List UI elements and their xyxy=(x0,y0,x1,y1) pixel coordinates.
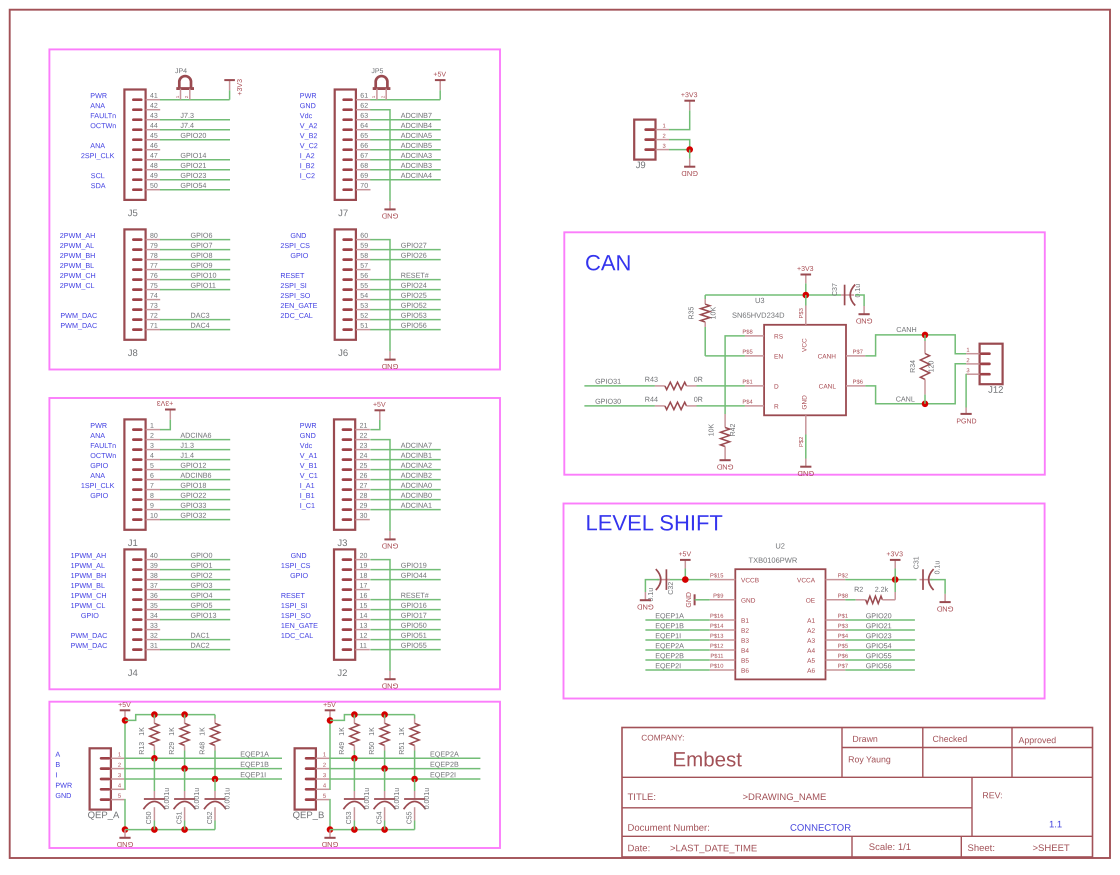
svg-text:C51: C51 xyxy=(176,811,183,824)
svg-text:37: 37 xyxy=(150,583,158,590)
svg-text:GPIO56: GPIO56 xyxy=(401,321,427,330)
svg-text:J1.4: J1.4 xyxy=(180,451,194,460)
connector J4 xyxy=(124,549,145,659)
svg-text:EQEP2I: EQEP2I xyxy=(655,661,681,670)
svg-text:J1.3: J1.3 xyxy=(180,441,194,450)
svg-text:44: 44 xyxy=(150,123,158,130)
svg-text:45: 45 xyxy=(150,133,158,140)
wire ground rail xyxy=(125,829,215,831)
J7 pin 66 xyxy=(356,149,371,151)
svg-text:EQEP2A: EQEP2A xyxy=(655,641,684,650)
wire rail to R13 xyxy=(153,715,155,719)
svg-text:J7.4: J7.4 xyxy=(180,121,194,130)
net EQEP1A xyxy=(645,619,709,621)
ground R42 xyxy=(724,452,726,460)
svg-text:P$4: P$4 xyxy=(742,400,753,406)
net ADCINA0 xyxy=(370,489,440,491)
resistor R35 xyxy=(701,304,710,322)
wire row to C54 xyxy=(384,769,386,791)
power +3V3 LS xyxy=(890,559,901,561)
svg-text:P$3: P$3 xyxy=(799,308,805,318)
svg-text:I_B1: I_B1 xyxy=(300,491,315,500)
net GPIO14 xyxy=(160,159,230,161)
svg-text:Embest: Embest xyxy=(672,748,742,771)
svg-text:R2: R2 xyxy=(854,585,863,594)
svg-text:GND: GND xyxy=(321,840,338,849)
J1 pin 5 xyxy=(146,469,161,471)
svg-text:GPIO23: GPIO23 xyxy=(180,171,206,180)
svg-text:50: 50 xyxy=(150,183,158,190)
wire C55 to ground rail xyxy=(414,821,416,830)
svg-text:15: 15 xyxy=(360,603,368,610)
svg-text:CANH: CANH xyxy=(818,353,837,360)
net GPIO13 xyxy=(160,619,230,621)
svg-text:PGND: PGND xyxy=(956,418,976,425)
svg-text:ADCINA4: ADCINA4 xyxy=(401,171,432,180)
wire rail to R49 xyxy=(353,715,355,719)
net ADCINA4 xyxy=(370,179,440,181)
svg-text:39: 39 xyxy=(150,563,158,570)
wire R51 to row xyxy=(414,746,416,751)
svg-text:4: 4 xyxy=(150,453,154,460)
U2 pin P$10 xyxy=(710,669,736,671)
net J1.3 xyxy=(160,449,230,451)
J8 pin 73 xyxy=(146,309,161,311)
svg-text:C31: C31 xyxy=(913,556,920,569)
svg-text:B4: B4 xyxy=(741,648,749,655)
svg-text:18: 18 xyxy=(360,573,368,580)
net GPIO20 xyxy=(845,619,915,621)
power +3V3 J5 xyxy=(224,79,235,81)
J4 pin 32 xyxy=(146,639,161,641)
U3 pin P$8 RS xyxy=(745,335,764,337)
net GPIO27 xyxy=(370,249,440,251)
svg-text:A4: A4 xyxy=(807,648,815,655)
svg-text:EQEP1I: EQEP1I xyxy=(240,770,266,779)
net GPIO30 xyxy=(584,405,655,407)
svg-text:P$6: P$6 xyxy=(853,380,863,386)
svg-text:GPIO33: GPIO33 xyxy=(180,501,206,510)
J12 pin 3 xyxy=(966,373,980,375)
J3 pin 27 xyxy=(355,489,370,491)
svg-text:GPIO3: GPIO3 xyxy=(190,581,212,590)
svg-text:2SPI_CS: 2SPI_CS xyxy=(280,241,310,250)
svg-text:>DRAWING_NAME: >DRAWING_NAME xyxy=(742,792,826,803)
J1 pin 10 xyxy=(146,519,161,521)
svg-text:GPIO0: GPIO0 xyxy=(190,551,212,560)
J5 pin 41 xyxy=(146,99,161,101)
svg-text:J4: J4 xyxy=(128,668,138,679)
J2 pin 19 xyxy=(355,569,370,571)
svg-text:29: 29 xyxy=(360,503,368,510)
svg-text:21: 21 xyxy=(360,423,368,430)
net J7.3 xyxy=(160,119,230,121)
connector J7 xyxy=(335,90,356,200)
svg-text:GPIO17: GPIO17 xyxy=(401,611,427,620)
svg-text:SN65HVD234D: SN65HVD234D xyxy=(732,311,785,320)
net GPIO54 xyxy=(160,189,230,191)
svg-text:GPIO52: GPIO52 xyxy=(401,301,427,310)
svg-text:+5V: +5V xyxy=(433,71,446,78)
svg-text:2.2k: 2.2k xyxy=(875,585,889,594)
J3 pin 22 xyxy=(355,439,370,441)
svg-text:38: 38 xyxy=(150,573,158,580)
svg-text:B3: B3 xyxy=(741,638,749,645)
svg-text:2SPI_SI: 2SPI_SI xyxy=(280,281,306,290)
wire C52 to ground rail xyxy=(214,821,216,830)
svg-text:1SPI_SO: 1SPI_SO xyxy=(281,611,311,620)
U3 pin P$3 VCC xyxy=(805,306,807,325)
svg-text:Drawn: Drawn xyxy=(852,734,878,744)
svg-text:2EN_GATE: 2EN_GATE xyxy=(280,301,317,310)
svg-text:VCC: VCC xyxy=(802,338,809,352)
svg-text:1K: 1K xyxy=(339,727,346,736)
svg-text:DAC1: DAC1 xyxy=(190,631,209,640)
svg-text:63: 63 xyxy=(360,113,368,120)
J4 pin 35 xyxy=(146,609,161,611)
net GPIO23 xyxy=(160,179,230,181)
wire C53 to ground rail xyxy=(353,821,355,830)
svg-text:ADCINA2: ADCINA2 xyxy=(401,461,432,470)
svg-text:ADCINB7: ADCINB7 xyxy=(401,111,432,120)
svg-text:GPIO: GPIO xyxy=(90,491,108,500)
net EQEP2I xyxy=(329,778,480,780)
title block frame xyxy=(622,728,1093,858)
J2 pin 11 xyxy=(355,649,370,651)
wire pin5 to ground rail xyxy=(123,800,126,830)
net GPIO54 xyxy=(845,649,915,651)
wire C51 to ground rail xyxy=(184,821,186,830)
svg-text:J6: J6 xyxy=(338,348,348,359)
svg-text:R44: R44 xyxy=(645,395,658,404)
svg-text:ANA: ANA xyxy=(90,141,105,150)
svg-text:GPIO54: GPIO54 xyxy=(866,641,892,650)
svg-text:3: 3 xyxy=(966,368,969,374)
svg-text:PWR: PWR xyxy=(300,421,317,430)
wire row to C51 xyxy=(184,769,186,791)
svg-text:3: 3 xyxy=(662,144,665,150)
svg-text:C55: C55 xyxy=(406,811,413,824)
wire R13 to row xyxy=(153,746,155,751)
ground J3 xyxy=(389,531,391,539)
svg-text:GPIO: GPIO xyxy=(81,611,99,620)
U3 pin P$6 CANL xyxy=(846,385,865,387)
svg-text:ADCINA5: ADCINA5 xyxy=(401,131,432,140)
svg-text:GPIO22: GPIO22 xyxy=(180,491,206,500)
op-amp U2 TXB0106PWR xyxy=(735,569,825,679)
wire J9 pin1 to +3V3 xyxy=(669,110,690,129)
net ADCINB3 xyxy=(370,169,440,171)
svg-text:QEP_A: QEP_A xyxy=(88,810,120,821)
svg-text:2: 2 xyxy=(118,763,121,769)
U2 pin P$15 xyxy=(710,579,736,581)
QEP_A pin 3 xyxy=(111,778,125,780)
QEP_A pin 1 xyxy=(111,757,125,759)
ground QEP_A xyxy=(124,830,126,838)
svg-text:13: 13 xyxy=(360,623,368,630)
J4 pin 36 xyxy=(146,599,161,601)
svg-text:+5V: +5V xyxy=(678,551,691,558)
svg-text:GPIO53: GPIO53 xyxy=(401,311,427,320)
connector J6 xyxy=(335,229,356,339)
J8 pin 78 xyxy=(146,259,161,261)
svg-text:CANL: CANL xyxy=(896,395,915,404)
J7 pin 62 xyxy=(356,109,371,111)
svg-text:R43: R43 xyxy=(645,375,658,384)
svg-text:P$11: P$11 xyxy=(710,654,723,660)
svg-text:GPIO19: GPIO19 xyxy=(401,561,427,570)
J4 pin 31 xyxy=(146,649,161,651)
svg-text:30: 30 xyxy=(360,513,368,520)
wire row to C55 xyxy=(414,779,416,791)
wire +5V step to rail xyxy=(125,715,215,721)
svg-text:GPIO44: GPIO44 xyxy=(401,571,427,580)
svg-text:JP4: JP4 xyxy=(175,68,187,75)
wire J9 pin2 xyxy=(669,140,690,150)
J2 pin 17 xyxy=(355,589,370,591)
net EQEP1I xyxy=(645,639,709,641)
U2 pin P$5 xyxy=(826,649,846,651)
wire R49 to row xyxy=(353,746,355,751)
J8 pin 77 xyxy=(146,269,161,271)
svg-text:GND: GND xyxy=(300,101,316,110)
net ADCINA1 xyxy=(370,509,440,511)
svg-text:B5: B5 xyxy=(741,658,749,665)
svg-text:0R: 0R xyxy=(694,395,703,404)
svg-text:10: 10 xyxy=(150,513,158,520)
svg-text:GPIO54: GPIO54 xyxy=(180,181,206,190)
svg-text:GPIO56: GPIO56 xyxy=(866,661,892,670)
svg-text:CANL: CANL xyxy=(819,383,837,390)
svg-text:Document Number:: Document Number: xyxy=(627,823,709,834)
ground C31 xyxy=(944,594,946,602)
node CANH junction xyxy=(922,332,929,339)
net GPIO4 xyxy=(160,599,230,601)
net GPIO12 xyxy=(160,469,230,471)
J12 pin 2 xyxy=(966,363,980,365)
svg-text:2: 2 xyxy=(323,763,326,769)
svg-text:A2: A2 xyxy=(807,628,815,635)
net GPIO7 xyxy=(160,249,230,251)
svg-text:16: 16 xyxy=(360,593,368,600)
power +5V QEP_A xyxy=(124,710,126,720)
net GPIO56 xyxy=(370,329,440,331)
svg-text:OCTWn: OCTWn xyxy=(90,451,116,460)
svg-text:78: 78 xyxy=(150,253,158,260)
connector J5 xyxy=(124,90,145,200)
svg-text:36: 36 xyxy=(150,593,158,600)
svg-text:19: 19 xyxy=(360,563,368,570)
svg-text:P$13: P$13 xyxy=(710,634,724,640)
wire R2 to VCCA node xyxy=(894,592,896,600)
U2 pin P$3 xyxy=(826,629,846,631)
resistor R44 xyxy=(655,405,665,407)
svg-text:EQEP1B: EQEP1B xyxy=(240,760,269,769)
svg-text:C32: C32 xyxy=(668,582,675,595)
svg-text:8: 8 xyxy=(150,493,154,500)
net EQEP2A xyxy=(329,757,480,759)
svg-text:53: 53 xyxy=(360,303,368,310)
wire EN net xyxy=(705,355,745,357)
svg-text:1SPI_CS: 1SPI_CS xyxy=(281,561,311,570)
wire R42 lead xyxy=(724,414,726,428)
module box QEP xyxy=(49,702,500,848)
svg-text:VCCA: VCCA xyxy=(797,577,816,584)
J9 pin 1 xyxy=(656,129,670,131)
svg-text:75: 75 xyxy=(150,283,158,290)
net GPIO11 xyxy=(160,289,230,291)
ground J7 xyxy=(389,201,391,209)
J2 pin 16 xyxy=(355,599,370,601)
capacitor C50 xyxy=(153,791,155,799)
svg-text:A6: A6 xyxy=(807,668,815,675)
svg-text:54: 54 xyxy=(360,293,368,300)
svg-text:GPIO: GPIO xyxy=(290,251,308,260)
power +5V J7 xyxy=(435,79,446,81)
ground U2 GND pin xyxy=(694,594,696,605)
svg-text:5: 5 xyxy=(150,463,154,470)
net GPIO0 xyxy=(160,559,230,561)
capacitor C32 xyxy=(657,579,667,581)
power symbol PGND xyxy=(965,408,967,414)
svg-text:66: 66 xyxy=(360,143,368,150)
svg-text:GPIO13: GPIO13 xyxy=(190,611,216,620)
svg-text:J1: J1 xyxy=(128,538,138,549)
ground QEP_B xyxy=(329,830,331,838)
jumper JP5 xyxy=(376,76,388,88)
title block lines xyxy=(842,747,1093,749)
svg-text:J9: J9 xyxy=(636,160,646,171)
svg-text:PWM_DAC: PWM_DAC xyxy=(71,631,108,640)
node VCCB junction xyxy=(682,576,689,583)
net ADCINA2 xyxy=(370,469,440,471)
svg-text:26: 26 xyxy=(360,473,368,480)
wire ground rail xyxy=(330,829,415,831)
J4 pin 38 xyxy=(146,579,161,581)
svg-text:Roy Yaung: Roy Yaung xyxy=(848,754,891,764)
svg-text:GND: GND xyxy=(381,682,398,691)
QEP_A pin 2 xyxy=(111,768,125,770)
svg-text:JP5: JP5 xyxy=(371,68,383,75)
J7 pin 67 xyxy=(356,159,371,161)
node VCCA junction xyxy=(892,576,899,583)
svg-text:12: 12 xyxy=(360,633,368,640)
J7 pin 63 xyxy=(356,119,371,121)
svg-text:GPIO55: GPIO55 xyxy=(401,641,427,650)
svg-text:77: 77 xyxy=(150,263,158,270)
svg-text:R42: R42 xyxy=(730,423,737,436)
svg-text:31: 31 xyxy=(150,643,158,650)
svg-text:1: 1 xyxy=(371,95,376,98)
svg-text:2PWM_BH: 2PWM_BH xyxy=(60,251,96,260)
svg-text:34: 34 xyxy=(150,613,158,620)
wire pin22 GND net xyxy=(370,440,390,532)
J6 pin 51 xyxy=(356,329,371,331)
QEP_A pin 5 xyxy=(111,799,125,801)
U2 pin P$7 xyxy=(826,669,846,671)
svg-text:COMPANY:: COMPANY: xyxy=(641,733,684,743)
svg-text:A1: A1 xyxy=(807,618,815,625)
svg-text:GPIO5: GPIO5 xyxy=(190,601,212,610)
svg-text:B6: B6 xyxy=(741,668,749,675)
svg-text:P$7: P$7 xyxy=(838,664,848,670)
J6 pin 52 xyxy=(356,319,371,321)
svg-text:25: 25 xyxy=(360,463,368,470)
J5 pin 42 xyxy=(146,109,161,111)
J6 pin 57 xyxy=(356,269,371,271)
net ADCINB7 xyxy=(370,119,440,121)
svg-text:A3: A3 xyxy=(807,638,815,645)
net GPIO10 xyxy=(160,279,230,281)
svg-text:P$3: P$3 xyxy=(838,624,848,630)
net RESET# xyxy=(370,599,440,601)
svg-text:Approved: Approved xyxy=(1018,735,1056,745)
net GPIO55 xyxy=(845,659,915,661)
J5 pin 48 xyxy=(146,169,161,171)
svg-text:1PWM_CL: 1PWM_CL xyxy=(71,601,106,610)
svg-text:P$12: P$12 xyxy=(710,644,724,650)
svg-text:2PWM_AH: 2PWM_AH xyxy=(60,231,96,240)
net ADCINB6 xyxy=(160,479,230,481)
net GPIO31 xyxy=(584,385,655,387)
svg-text:GND: GND xyxy=(636,603,653,612)
wire +3V3 rail xyxy=(705,294,841,296)
svg-text:20: 20 xyxy=(360,553,368,560)
capacitor C37 xyxy=(841,294,845,296)
resistor R42 xyxy=(721,428,730,447)
svg-text:EQEP1A: EQEP1A xyxy=(655,611,684,620)
J6 pin 54 xyxy=(356,299,371,301)
svg-text:GND: GND xyxy=(290,231,306,240)
svg-text:69: 69 xyxy=(360,173,368,180)
svg-text:3: 3 xyxy=(118,773,121,779)
J9 pin 2 xyxy=(656,139,670,141)
QEP_B pin 4 xyxy=(316,788,330,790)
svg-text:C54: C54 xyxy=(376,811,383,824)
svg-text:I_C2: I_C2 xyxy=(300,171,315,180)
svg-text:0.001u: 0.001u xyxy=(194,788,201,810)
QEP_B pin 1 xyxy=(316,757,330,759)
svg-text:P$8: P$8 xyxy=(838,594,848,600)
svg-text:ADCINA6: ADCINA6 xyxy=(180,431,211,440)
QEP_B pin 3 xyxy=(316,778,330,780)
svg-text:ADCINB0: ADCINB0 xyxy=(401,491,432,500)
svg-text:GPIO27: GPIO27 xyxy=(401,241,427,250)
connector J9 xyxy=(634,120,655,160)
svg-text:58: 58 xyxy=(360,253,368,260)
svg-text:GND: GND xyxy=(381,212,398,221)
connector J2 xyxy=(334,549,355,659)
svg-text:GPIO4: GPIO4 xyxy=(190,591,212,600)
svg-text:60: 60 xyxy=(360,233,368,240)
svg-text:P$4: P$4 xyxy=(838,634,849,640)
module box headers J5 J7 J8 J6 xyxy=(49,49,500,369)
svg-text:V_C1: V_C1 xyxy=(300,471,318,480)
U2 pin P$6 xyxy=(826,659,846,661)
svg-text:48: 48 xyxy=(150,163,158,170)
svg-text:P$7: P$7 xyxy=(853,350,863,356)
svg-text:GND: GND xyxy=(716,463,733,472)
svg-text:ANA: ANA xyxy=(90,431,105,440)
svg-text:ADCINA7: ADCINA7 xyxy=(401,441,432,450)
net ADCINB2 xyxy=(370,479,440,481)
ground C37 xyxy=(863,306,865,314)
svg-text:+5V: +5V xyxy=(323,702,336,709)
svg-text:R35: R35 xyxy=(689,307,696,320)
svg-text:11: 11 xyxy=(360,643,367,650)
svg-text:5: 5 xyxy=(118,794,121,800)
svg-text:GPIO21: GPIO21 xyxy=(180,161,206,170)
